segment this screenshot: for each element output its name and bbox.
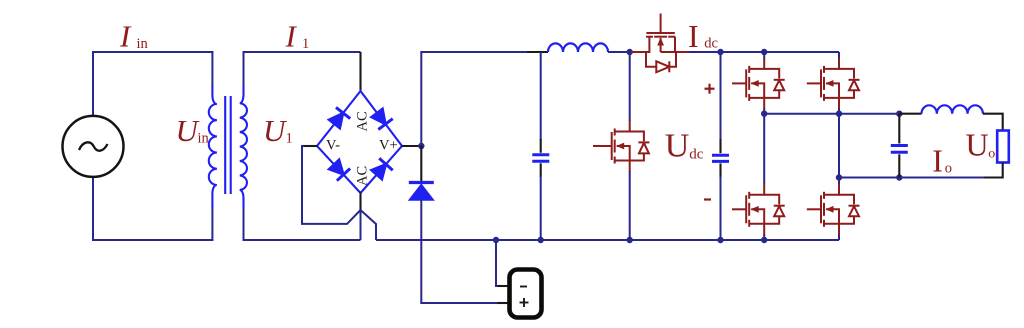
sensor box [510, 270, 542, 318]
wire V- wrap navy [302, 146, 361, 224]
svg-text:V+: V+ [379, 138, 398, 154]
wire middle MOSFET source to bottom rail [629, 171, 631, 240]
svg-text:in: in [137, 36, 149, 52]
wire black stub bridge V- [303, 145, 318, 147]
wire transformer primary bottom lead [211, 207, 213, 241]
transformer secondary winding [240, 86, 247, 208]
capacitor C1 [532, 139, 549, 177]
node C1 bottom [538, 237, 544, 243]
svg-text:1: 1 [286, 131, 293, 147]
wire black sensor minus stub [498, 285, 511, 287]
svg-text:I: I [688, 18, 699, 54]
wire red drain lead Q1 [631, 37, 649, 52]
wire top rail bridge to capacitor [421, 51, 527, 53]
svg-text:dc: dc [689, 147, 704, 163]
transistor Q1 source bar [661, 37, 675, 52]
wire primary loop top [92, 51, 213, 53]
wire primary loop left vertical bottom [92, 177, 94, 241]
transistor Q1 right dash [668, 36, 675, 38]
transistor Q6 H-bridge bottom-right [807, 178, 860, 241]
wire bottom rail DC minus [376, 239, 839, 241]
wire transformer secondary bottom lead [243, 207, 245, 241]
transformer primary winding [209, 86, 217, 208]
inductor L2 output [922, 105, 983, 113]
diode D2 bridge top-right [371, 109, 392, 130]
wire DC link cap branch top [720, 52, 722, 140]
svg-text:I: I [119, 19, 132, 54]
wire C1 branch navy bottom [540, 176, 542, 240]
svg-text:AC: AC [355, 111, 371, 131]
node left leg midpoint [761, 111, 767, 117]
svg-text:U: U [263, 113, 288, 148]
wire top rail Q1 to H-bridge [689, 51, 839, 53]
transistor Q1 left dash [646, 36, 653, 38]
node Q2 source bottom [627, 237, 633, 243]
wire secondary bottom rail to bridge fork [243, 239, 361, 241]
label plus DC link [705, 84, 715, 94]
transistor Q4 H-bridge top-right [807, 52, 860, 114]
label minus DC link [704, 198, 711, 200]
wire fork diagonal right to DC minus rail [361, 210, 377, 240]
node C2 bottom [717, 237, 723, 243]
wire black top rail segment near C1 [527, 51, 548, 53]
node output cap bottom [896, 174, 902, 180]
node right leg midpoint bottom [836, 174, 842, 180]
wire C1 branch navy top [540, 52, 542, 140]
transistor Q1 middle dash [654, 36, 667, 38]
node right leg crossing top [836, 111, 842, 117]
svg-text:I: I [932, 143, 943, 179]
svg-text:AC: AC [355, 166, 371, 186]
svg-text:in: in [198, 131, 210, 147]
transformer core line left [224, 96, 226, 194]
wire transformer secondary top lead [243, 51, 245, 87]
wire black to output inductor [899, 113, 921, 115]
wire black sensor plus stub [498, 302, 511, 304]
wire primary loop bottom [92, 239, 213, 241]
wire black stub bridge AC top [359, 52, 361, 92]
wire primary loop left vertical top [92, 52, 94, 116]
svg-text:U: U [966, 127, 989, 163]
transformer core line right [230, 96, 232, 194]
transistor Q2 shunt MOSFET [593, 120, 649, 172]
wire transformer primary top lead [211, 51, 213, 87]
resistor load box [997, 131, 1009, 163]
capacitor C2 DC link [712, 139, 729, 178]
wire boost branch vertical top [420, 51, 422, 147]
transistor Q1 buck MOSFET gate lead [660, 14, 662, 34]
node sensor minus branch [493, 237, 499, 243]
node DC link cap top [717, 49, 723, 55]
svg-text:I: I [285, 19, 298, 54]
transistor Q1 gate bar [646, 32, 674, 34]
svg-text:1: 1 [302, 36, 309, 52]
wire right leg midpoint vertical [838, 114, 840, 178]
diode D1 bridge top-left [329, 107, 350, 128]
svg-text:o: o [945, 161, 952, 177]
node H-bridge left leg top [761, 49, 767, 55]
wire H-bridge output bottom line [839, 177, 985, 179]
diode D5 freewheel [409, 183, 434, 201]
wire below freewheel diode to sensor [421, 200, 498, 303]
inductor L1 [548, 43, 608, 52]
transistor Q1 bulk arrow [657, 38, 664, 53]
diode Q1 body diode loop [646, 52, 676, 72]
node buck input [627, 49, 633, 55]
wire black segment above freewheel diode [420, 146, 422, 183]
diode D4 bridge bottom-right [371, 158, 392, 179]
wire black load to bottom line [984, 163, 1003, 178]
transistor Q5 H-bridge bottom-left [732, 114, 785, 240]
wire red source lead Q1 [675, 51, 689, 53]
transistor Q3 H-bridge top-left [732, 52, 785, 114]
wire black inductor to load [983, 114, 1003, 131]
svg-text:o: o [988, 147, 995, 162]
diode D3 bridge bottom-left [329, 160, 350, 181]
wire L1 to node [608, 51, 630, 53]
svg-text:V-: V- [326, 138, 340, 154]
bridge diamond outline [317, 91, 402, 193]
wire black stub bridge AC bottom [359, 193, 361, 211]
wire AC bottom fork to left rail [360, 210, 362, 241]
wire DC link cap branch bottom [720, 177, 722, 241]
wire sensor minus vertical [496, 240, 499, 286]
wire secondary top rail to bridge [243, 51, 361, 53]
wire black stub bridge V+ [402, 145, 422, 147]
wire H-bridge output top line [764, 113, 899, 115]
node Q5 source bottom [761, 237, 767, 243]
node V+ junction [418, 143, 424, 149]
capacitor C3 output [891, 114, 908, 178]
node output cap top [896, 111, 902, 117]
label sensor plus [520, 298, 529, 307]
label sensor minus [520, 286, 527, 288]
svg-text:U: U [665, 128, 690, 165]
svg-text:dc: dc [704, 36, 718, 52]
AC source V1 [63, 116, 124, 177]
wire middle MOSFET drain from top rail [629, 52, 631, 121]
